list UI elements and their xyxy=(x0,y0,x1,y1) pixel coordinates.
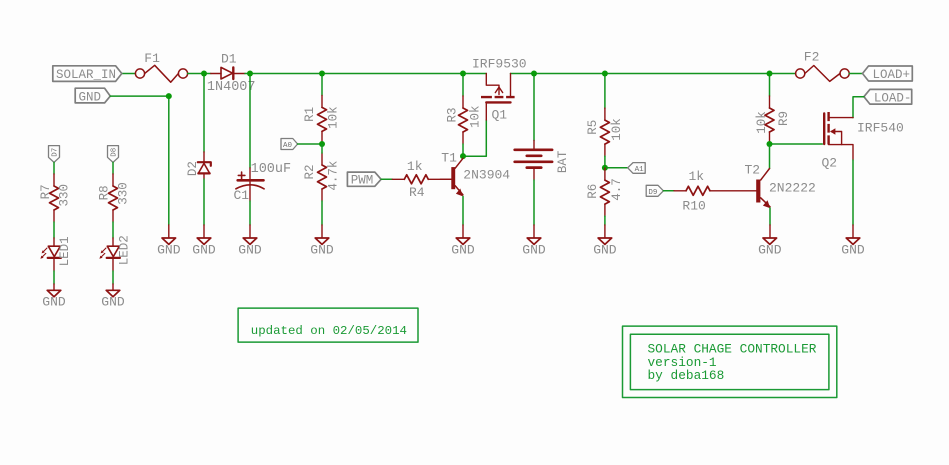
svg-text:LOAD-: LOAD- xyxy=(874,91,912,105)
svg-text:GND: GND xyxy=(192,242,216,257)
wire: rail to R5 xyxy=(604,74,606,109)
wire: A0 to R1/R2 node xyxy=(298,143,322,145)
zener diode D2 xyxy=(198,152,211,179)
junction: BAT node on rail xyxy=(531,71,537,77)
svg-text:GND: GND xyxy=(593,242,617,257)
svg-text:10k: 10k xyxy=(610,118,624,141)
fuse F2 xyxy=(796,66,850,82)
net tag D7 xyxy=(49,146,60,163)
wire (gnd pin) xyxy=(462,225,464,238)
wire: top rail SOLAR_IN to fuse F1 xyxy=(122,73,136,75)
wire: top rail D1 to Q1 source xyxy=(245,73,486,75)
resistor R7 330 xyxy=(50,174,59,222)
battery BAT xyxy=(515,141,552,181)
wire: rail to BAT xyxy=(533,74,535,141)
svg-text:F1: F1 xyxy=(144,51,160,66)
wire: BAT to ground xyxy=(533,180,535,225)
npn transistor T1 2N3904 xyxy=(440,158,463,196)
wire: Q2 source to ground xyxy=(852,160,854,225)
svg-text:GND: GND xyxy=(841,242,865,257)
svg-text:IRF540: IRF540 xyxy=(857,121,904,136)
svg-text:A1: A1 xyxy=(635,166,645,174)
svg-text:330: 330 xyxy=(58,184,72,207)
wire (gnd pin) xyxy=(53,284,55,290)
n-mosfet Q2 IRF540 xyxy=(824,112,853,160)
wire: rail to R9 xyxy=(769,74,771,97)
net label SOLAR_IN xyxy=(53,66,122,82)
wire: R9/T2 node to Q2 gate xyxy=(770,143,823,145)
resistor R5 10k xyxy=(600,108,609,156)
svg-text:Q2: Q2 xyxy=(822,156,838,171)
wire (gnd pin) xyxy=(203,225,205,238)
ground xyxy=(315,238,329,244)
svg-text:C1: C1 xyxy=(234,188,250,203)
svg-text:GND: GND xyxy=(522,242,546,257)
resistor R3 10k xyxy=(459,96,468,144)
svg-text:PWM: PWM xyxy=(351,174,374,188)
p-mosfet Q1 IRF9530 xyxy=(481,74,515,121)
net label GND (flag) xyxy=(75,88,110,103)
wire: GND flag to ground column xyxy=(110,96,169,225)
resistor R6 4.7 xyxy=(600,168,609,216)
wire: node down to T2 collector xyxy=(769,144,771,169)
svg-text:4.7: 4.7 xyxy=(610,178,624,201)
net tag A0 xyxy=(281,139,298,150)
wire (gnd pin) xyxy=(168,225,170,238)
svg-text:R5: R5 xyxy=(586,120,600,135)
junction: R9 node on rail xyxy=(767,71,773,77)
svg-text:D9: D9 xyxy=(648,189,657,197)
npn transistor T2 2N2222 xyxy=(756,169,770,209)
capacitor C1 100uF xyxy=(236,168,264,201)
wire: D2 to ground xyxy=(203,179,205,225)
junction: C1 node on rail xyxy=(247,71,253,77)
svg-text:330: 330 xyxy=(117,182,131,205)
svg-text:R2: R2 xyxy=(303,164,317,179)
net label LOAD- xyxy=(864,89,912,104)
ground xyxy=(527,238,541,244)
svg-text:1k: 1k xyxy=(407,159,423,174)
ground xyxy=(846,238,860,244)
wire: T2 emitter to ground xyxy=(769,208,771,225)
junction: T1 collector node xyxy=(460,153,466,159)
svg-text:R1: R1 xyxy=(303,107,317,122)
wire (gnd pin) xyxy=(852,225,854,238)
wire: top rail Q1 drain to F2 xyxy=(511,73,796,75)
svg-text:D2: D2 xyxy=(186,161,200,176)
svg-text:R7: R7 xyxy=(39,184,53,199)
svg-text:1k: 1k xyxy=(689,169,705,184)
wire: D8 to R8 xyxy=(112,162,114,174)
svg-text:R9: R9 xyxy=(777,111,791,126)
fuse F1 xyxy=(135,65,187,82)
svg-text:LED1: LED1 xyxy=(58,236,72,266)
LED1 xyxy=(40,238,61,271)
ground xyxy=(598,238,612,244)
wire: R7 to LED1 xyxy=(53,222,55,238)
wire: rail to C1 xyxy=(249,74,251,168)
svg-text:T1: T1 xyxy=(441,150,457,165)
ground xyxy=(197,238,211,244)
svg-text:BAT: BAT xyxy=(556,150,570,173)
svg-text:10k: 10k xyxy=(469,106,483,129)
net tag A1 xyxy=(628,163,646,174)
svg-text:R10: R10 xyxy=(682,198,705,213)
ground xyxy=(456,238,470,244)
wire (gnd pin) xyxy=(321,225,323,238)
wire (gnd pin) xyxy=(112,284,114,290)
svg-text:1N4007: 1N4007 xyxy=(207,80,256,95)
wire: F2 to LOAD+ xyxy=(849,73,862,75)
resistor R2 4.7k xyxy=(318,153,327,201)
svg-text:GND: GND xyxy=(101,295,125,310)
svg-text:GND: GND xyxy=(451,242,475,257)
wire: C1 to ground xyxy=(249,201,251,225)
wire: R3 to T1 collector node xyxy=(462,144,464,156)
resistor R4 1k xyxy=(392,175,451,184)
wire: F1 to D1 anode xyxy=(188,73,211,75)
resistor R10 1k xyxy=(674,186,756,195)
junction: R1 node on rail xyxy=(319,71,325,77)
svg-text:D8: D8 xyxy=(110,148,118,157)
svg-text:updated on 02/05/2014: updated on 02/05/2014 xyxy=(251,324,407,338)
LED2 xyxy=(99,238,120,271)
wire: R6 to ground xyxy=(604,216,606,225)
wire: T1 emitter to ground xyxy=(462,196,464,225)
svg-text:10k: 10k xyxy=(755,111,769,134)
resistor R9 10k xyxy=(765,96,774,144)
net tag D9 xyxy=(646,185,663,196)
wire: R8 to LED2 xyxy=(112,222,114,238)
svg-text:by deba168: by deba168 xyxy=(648,368,725,383)
junction: R5 node on rail xyxy=(602,71,608,77)
svg-text:SOLAR_IN: SOLAR_IN xyxy=(56,68,116,82)
svg-text:2N3904: 2N3904 xyxy=(463,167,510,182)
junction: R9/T2 node xyxy=(767,141,773,147)
ground xyxy=(763,238,777,244)
wire (gnd pin) xyxy=(533,225,535,238)
wire: LED1 to ground xyxy=(53,271,55,284)
svg-text:GND: GND xyxy=(42,295,66,310)
svg-text:IRF9530: IRF9530 xyxy=(472,57,527,72)
svg-text:R6: R6 xyxy=(586,184,600,199)
svg-text:D7: D7 xyxy=(51,148,59,157)
resistor R1 10k xyxy=(318,95,327,143)
wire: LED2 to ground xyxy=(112,271,114,284)
wire: LOAD- to Q2 drain xyxy=(853,97,864,118)
wire (gnd pin) xyxy=(604,225,606,238)
net tag PWM xyxy=(347,172,381,186)
svg-text:T2: T2 xyxy=(745,163,761,178)
svg-text:R8: R8 xyxy=(97,185,111,200)
svg-text:LED2: LED2 xyxy=(118,235,132,265)
svg-text:R3: R3 xyxy=(445,107,459,122)
wire: rail to R3 xyxy=(462,74,464,97)
ground xyxy=(106,290,120,296)
svg-text:GND: GND xyxy=(157,242,181,257)
wire: R5 to A1 node xyxy=(604,156,606,168)
wire: R2 to ground xyxy=(321,201,323,225)
ground xyxy=(162,238,176,244)
junction: A0 node xyxy=(319,141,325,147)
wire (gnd pin) xyxy=(249,225,251,238)
svg-text:4.7k: 4.7k xyxy=(326,161,340,191)
wire: PWM to R4 xyxy=(381,178,392,180)
net tag D8 xyxy=(108,146,119,163)
svg-text:10k: 10k xyxy=(326,106,340,129)
svg-text:LOAD+: LOAD+ xyxy=(873,68,911,82)
svg-text:GND: GND xyxy=(310,242,334,257)
svg-text:Q1: Q1 xyxy=(492,107,508,122)
svg-text:GND: GND xyxy=(79,91,102,105)
svg-text:100uF: 100uF xyxy=(251,162,292,177)
svg-text:A0: A0 xyxy=(283,142,293,150)
junction: D2 node on rail xyxy=(201,71,207,77)
title box: SOLAR CHAGE CONTROLLER xyxy=(623,326,837,397)
junction: R3 node on rail xyxy=(460,71,466,77)
wire: Q1 gate to T1 collector node xyxy=(463,120,486,156)
diode D1 1N4007 xyxy=(211,67,245,79)
junction: A1 node xyxy=(602,165,608,171)
svg-text:F2: F2 xyxy=(804,50,820,65)
ground xyxy=(243,238,257,244)
svg-text:GND: GND xyxy=(758,242,782,257)
svg-text:GND: GND xyxy=(238,242,262,257)
wire: rail to R1 xyxy=(321,74,323,96)
wire: rail to D2 xyxy=(203,74,205,153)
note box: updated on 02/05/2014 xyxy=(238,308,418,342)
ground xyxy=(47,290,61,296)
svg-text:D1: D1 xyxy=(221,52,237,67)
wire (gnd pin) xyxy=(769,225,771,238)
junction: GND flag node xyxy=(166,93,172,99)
wire: D7 to R7 xyxy=(53,162,55,174)
net label LOAD+ xyxy=(863,66,913,81)
resistor R8 330 xyxy=(109,174,118,222)
svg-text:R4: R4 xyxy=(409,185,425,200)
wire: D9 to R10 xyxy=(663,190,674,192)
svg-text:2N2222: 2N2222 xyxy=(769,181,816,196)
wire: A1 node to tag xyxy=(605,167,628,169)
